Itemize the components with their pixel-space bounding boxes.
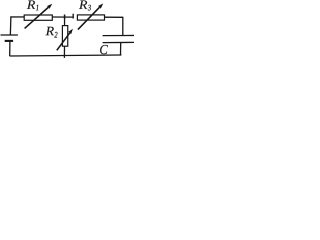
- arrowhead R2: [68, 29, 73, 34]
- label R3 subscript 3: [88, 5, 91, 11]
- arrow shaft R3: [78, 7, 100, 29]
- arrowhead R3: [98, 3, 103, 8]
- capacitor C top plate: [103, 34, 134, 36]
- battery short thick plate (-): [5, 40, 13, 42]
- arrow shaft R2: [57, 33, 70, 50]
- label R1 letter R: [27, 0, 35, 8]
- resistor R3 box: [77, 15, 104, 20]
- battery long plate (+): [1, 34, 18, 36]
- wire R1 to R3: [52, 16, 73, 18]
- wire bottom horizontal: [10, 55, 122, 56]
- wire battery bottom lead: [9, 42, 11, 56]
- node junction tick R2 tap: [64, 15, 66, 20]
- capacitor C bottom plate: [103, 41, 134, 43]
- label C letter: [100, 45, 108, 54]
- wire R2 lower lead: [63, 46, 65, 58]
- wire right vertical capacitor top lead: [122, 17, 124, 36]
- label R2 subscript 2: [54, 32, 57, 38]
- arrowhead R1: [47, 4, 52, 9]
- label R3 letter R: [79, 0, 87, 8]
- resistor R1 box: [24, 15, 52, 20]
- resistor R2 box: [62, 26, 67, 47]
- wire top-left horizontal: [10, 16, 24, 18]
- wire R2 upper lead: [64, 15, 66, 26]
- wire left vertical battery top lead: [9, 16, 12, 35]
- wire capacitor bottom lead: [120, 43, 122, 56]
- arrow shaft R1: [25, 7, 49, 28]
- node bar tick before R3: [72, 14, 74, 19]
- label R1 subscript 1: [36, 5, 38, 11]
- wire R3 to top-right corner: [105, 16, 123, 18]
- label R2 letter R: [46, 27, 54, 35]
